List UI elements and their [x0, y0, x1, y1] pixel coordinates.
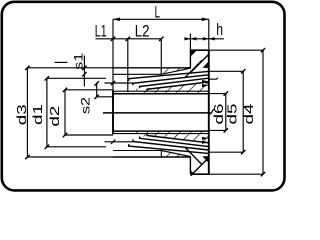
seat line dash right of face: [209, 78, 218, 79]
slit D3 top: [140, 78, 209, 88]
hatch wedge above D1 top: [161, 68, 190, 75]
dimension L right arrow: [202, 18, 209, 22]
slit edge stub top: [105, 82, 133, 84]
dimension line L1 L2: [96, 38, 162, 40]
d6 bottom extension: [209, 129, 226, 131]
slit edge stub bottom: [105, 141, 133, 143]
tick d3 bottom: [25, 155, 29, 159]
flange top edge: [190, 49, 208, 51]
tick stub bottom: [111, 140, 115, 144]
tick at (161.3,38.8): [159, 37, 163, 41]
s2 dimension vertical line: [96, 83, 98, 97]
tick d1 bottom: [45, 145, 49, 149]
chamfer line top: [185, 60, 202, 78]
flange hatch line upper: [191, 55, 209, 73]
s2 bottom corner extension: [97, 96, 113, 98]
slit end vertical bottom: [160, 151, 162, 158]
svg-text:d6: d6: [212, 104, 226, 125]
border frame: [2, 2, 285, 191]
d5 bottom extension: [209, 151, 243, 153]
sleeve inner line top: [113, 90, 209, 92]
extension line h left x=190.4: [189, 34, 191, 51]
s1 leader dash: [55, 61, 68, 63]
svg-text:L1: L1: [95, 22, 107, 41]
svg-text:d5: d5: [225, 104, 239, 125]
convergence blob bottom: [202, 137, 209, 144]
tick d5 top: [241, 69, 245, 73]
cone outer top: [161, 68, 190, 74]
extension line left end x=113: [112, 19, 114, 91]
slit D4 bottom: [147, 134, 209, 143]
dimension d1 vertical line: [46, 78, 48, 147]
tick d5 bottom: [241, 150, 245, 154]
sleeve tip outer bottom: [113, 156, 190, 158]
part left face: [112, 91, 114, 135]
tick s1 bottom: [82, 72, 86, 76]
flange right face: [208, 50, 210, 174]
tick s2 top: [95, 81, 99, 85]
svg-text:s1: s1: [72, 53, 85, 70]
tick d4 top: [261, 48, 265, 52]
flange hatch line lower: [191, 160, 207, 176]
flange left face upper: [189, 50, 191, 68]
hatched regions: [136, 68, 209, 157]
slit D2 bottom: [133, 140, 209, 151]
flange corner fill bottom: [190, 170, 194, 174]
d4 top extension: [209, 49, 263, 51]
tick at (127.8,38.8): [126, 37, 130, 41]
extension line L2 x=161.3: [160, 39, 162, 75]
svg-text:d1: d1: [31, 104, 45, 125]
slit D1 bottom: [129, 144, 209, 153]
arrow blob h right: [203, 37, 215, 40]
dimension d6 vertical line: [225, 94, 227, 131]
convergence blob top: [202, 80, 209, 87]
tick d6 bottom: [224, 128, 228, 132]
sleeve tip outer top: [113, 67, 190, 69]
tick d4 bottom: [261, 172, 265, 176]
cone outer bottom: [161, 151, 190, 157]
svg-text:h: h: [216, 21, 223, 39]
svg-text:d3: d3: [15, 104, 29, 125]
d1 bottom extension: [47, 146, 106, 148]
tick at (113,38.8): [111, 37, 115, 41]
sleeve tip inner bottom: [113, 150, 161, 152]
hatch wedge below D1 bottom: [161, 151, 190, 158]
dimension h line: [185, 38, 224, 40]
slit end vertical top: [160, 68, 162, 75]
flange corner fill top: [190, 50, 197, 57]
centerline end tick: [210, 109, 214, 114]
d3 bottom extension: [27, 156, 113, 158]
bore line top: [113, 93, 209, 95]
slit D2 top: [133, 75, 209, 86]
hatch band on bore top: [136, 83, 209, 95]
dimension d5 vertical line: [242, 71, 244, 152]
d6 top extension: [209, 93, 226, 95]
dimension d3 vertical line: [26, 68, 28, 157]
slit D1 top: [129, 71, 209, 80]
tick d2 top: [63, 88, 67, 92]
tick s1 top: [82, 66, 86, 70]
tick d2 bottom: [63, 133, 67, 137]
d2 bottom extension: [65, 134, 113, 136]
tick d1 top: [45, 76, 49, 80]
dimension d2 vertical line: [64, 90, 66, 135]
flange bottom edge: [190, 173, 208, 175]
dimension d4 vertical line: [262, 50, 264, 174]
sleeve inner line bottom: [113, 133, 209, 135]
extension line L1 x=127.8: [127, 39, 129, 92]
chamfer line bottom: [185, 147, 202, 165]
dimension L line: [113, 18, 209, 20]
slit D4 top: [147, 82, 209, 91]
svg-text:L: L: [155, 2, 161, 22]
bore line bottom: [113, 130, 209, 132]
svg-text:d4: d4: [242, 104, 256, 125]
slit D3 bottom: [140, 137, 209, 147]
d2 top extension: [65, 89, 113, 91]
flange hatch blob upper right: [203, 62, 209, 68]
d1 top extension: [47, 77, 106, 79]
dimension L left arrow: [113, 18, 120, 22]
tick stub top: [111, 81, 115, 85]
tick d3 top: [25, 66, 29, 70]
tick s2 bottom: [95, 95, 99, 99]
svg-text:s2: s2: [79, 97, 92, 114]
flange left face lower: [189, 156, 191, 174]
d3 top extension: [27, 67, 113, 69]
flange hatch blob lower right: [203, 156, 209, 162]
d5 top extension: [209, 70, 243, 72]
s1 dimension vertical line: [83, 56, 85, 87]
svg-text:L2: L2: [135, 22, 150, 41]
d4 bottom extension: [209, 173, 263, 175]
arrow blob h left: [184, 37, 196, 40]
centerline: [103, 112, 211, 114]
tick d6 top: [224, 91, 228, 95]
svg-text:d2: d2: [48, 106, 62, 127]
extension line right end x=208.8: [208, 19, 210, 50]
sleeve tip inner top: [113, 73, 161, 75]
hatch band on bore bottom: [136, 131, 209, 143]
